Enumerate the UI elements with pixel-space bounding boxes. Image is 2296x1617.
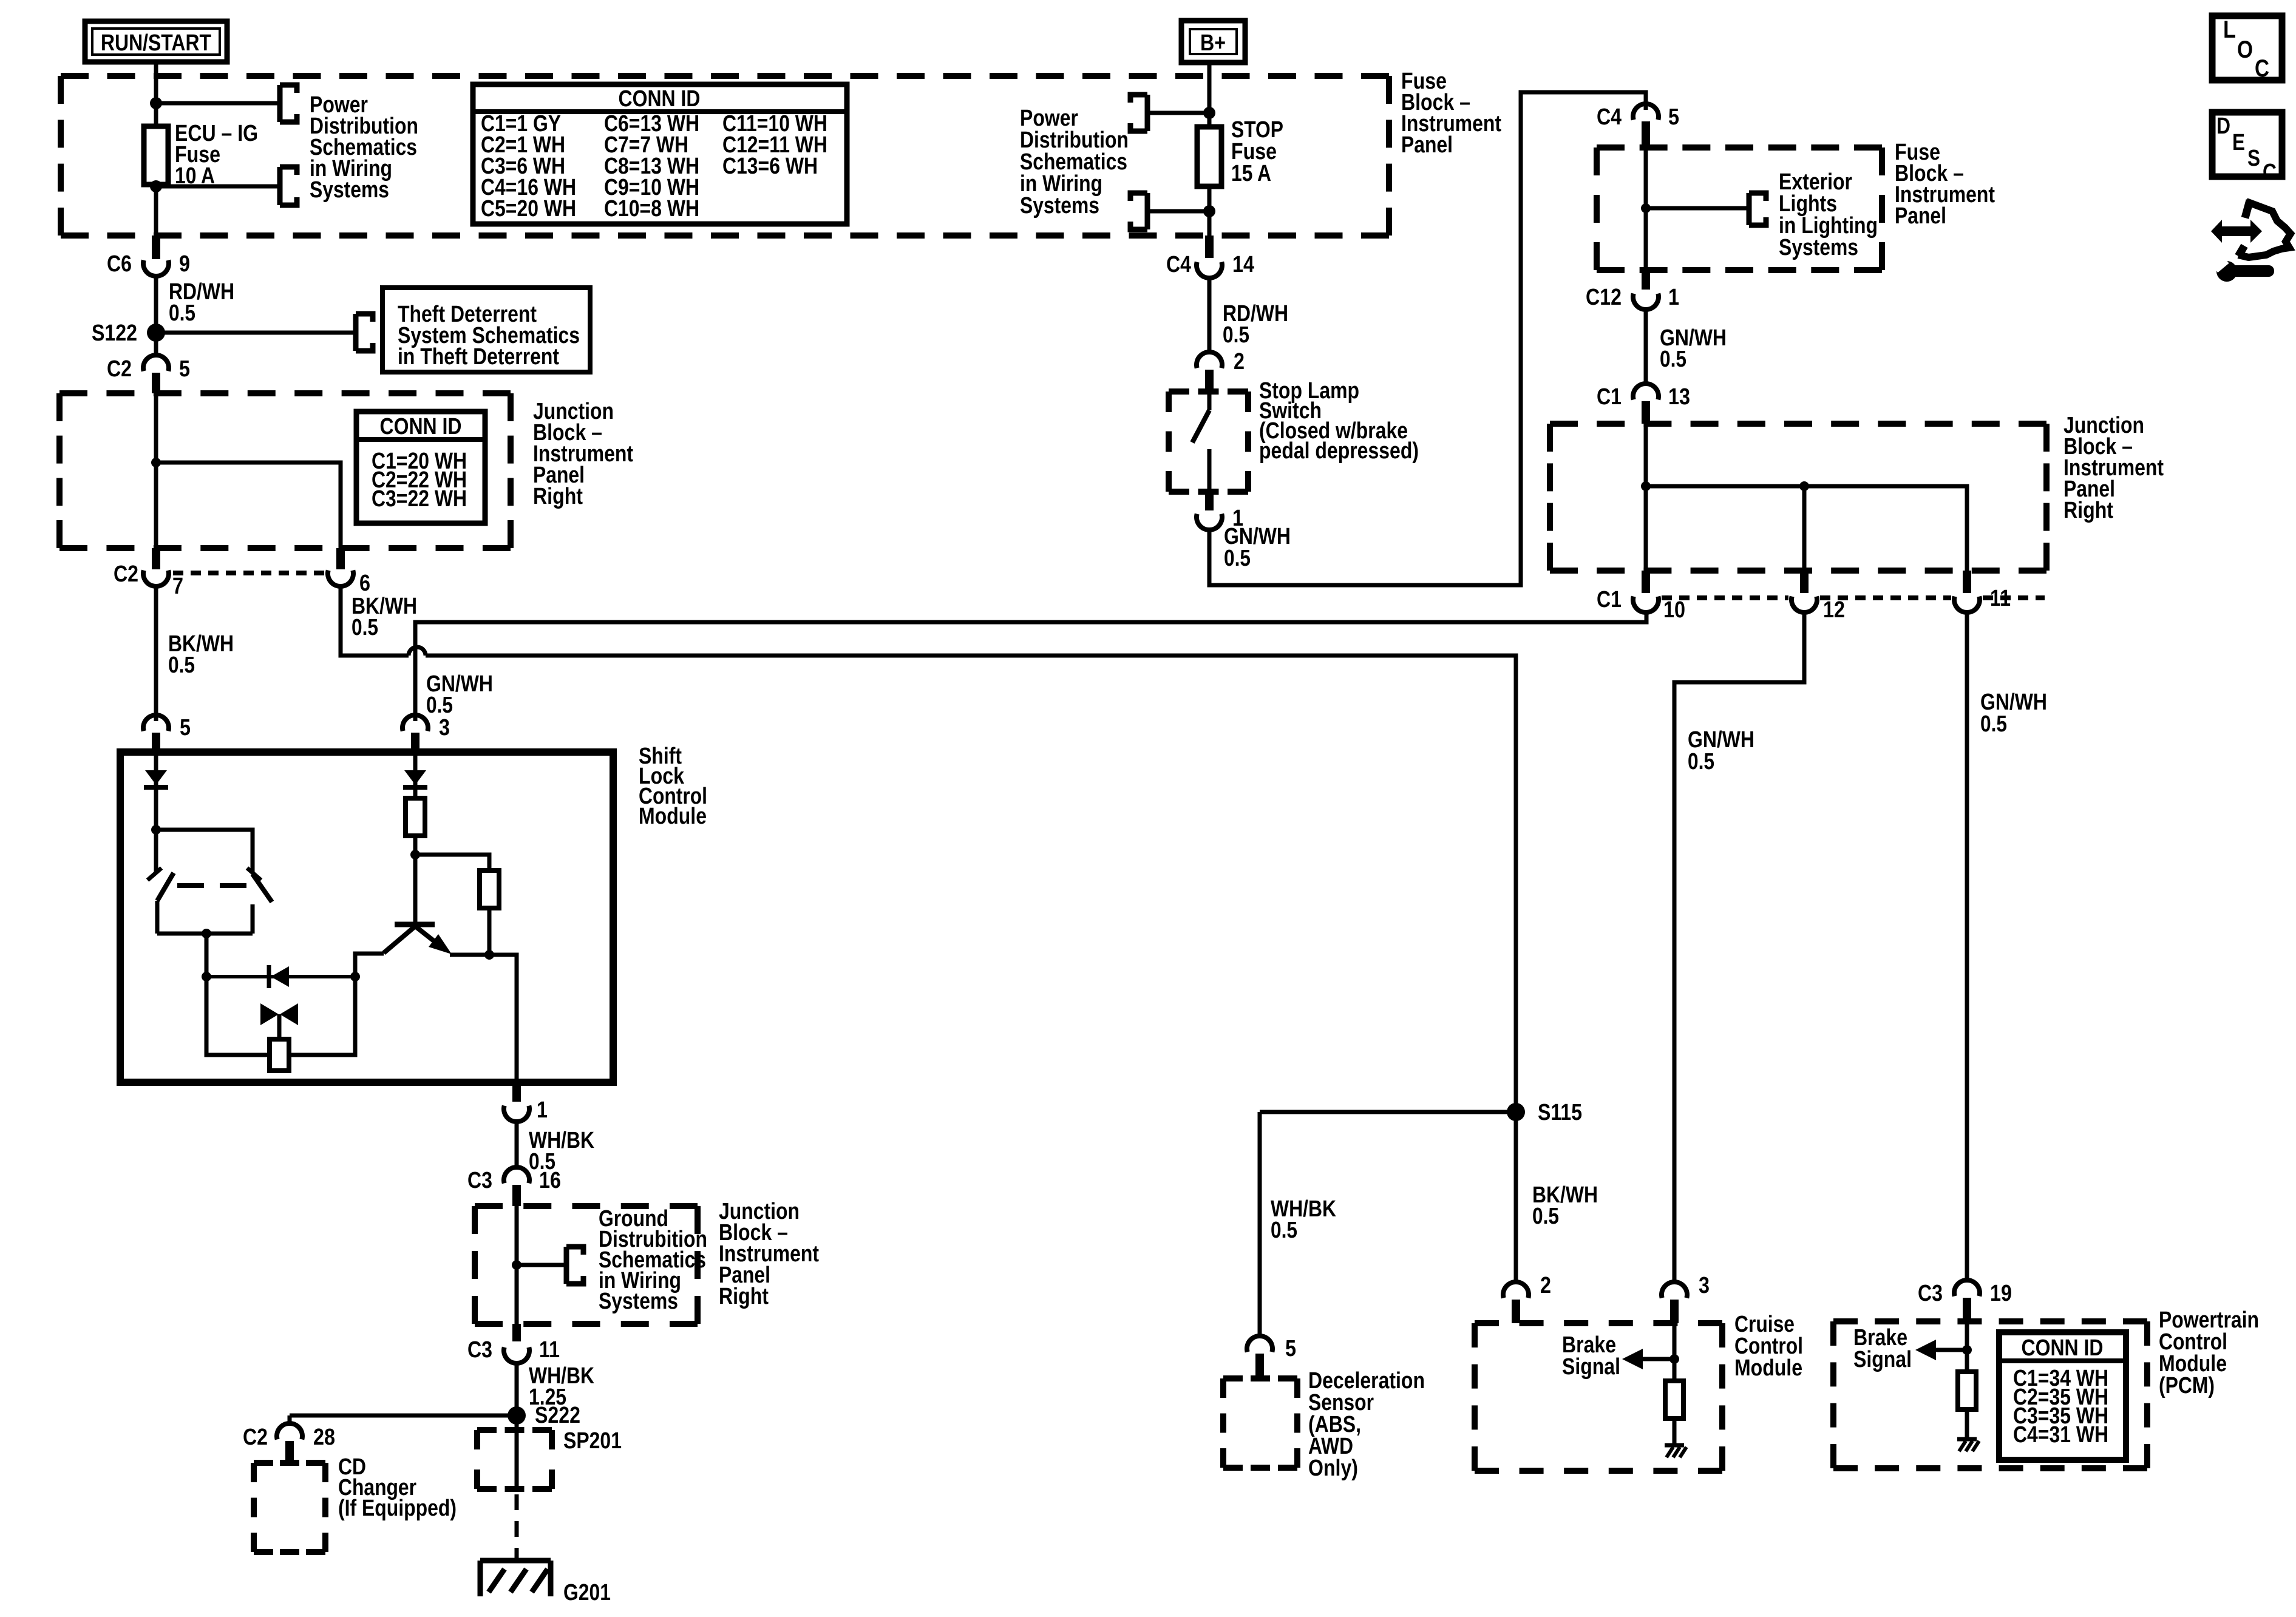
- wire BK/WH run to S115: [341, 586, 1516, 1103]
- svg-text:S: S: [2247, 146, 2260, 171]
- svg-text:B+: B+: [1200, 30, 1226, 56]
- power tag B+: [1181, 21, 1245, 63]
- off-page bracket to Ground Distribution: [566, 1244, 583, 1287]
- svg-text:C2: C2: [107, 356, 132, 382]
- wire node to bracket 2 (left): [1147, 209, 1209, 214]
- svg-text:C6: C6: [107, 251, 132, 277]
- label Fuse Block - Instrument Panel (top right of dashed box): [1401, 69, 1501, 158]
- label Shift Lock Control Module: [639, 744, 707, 829]
- label Ground Distrubition Schematics in Wiring Systems: [599, 1206, 707, 1314]
- wire RD/WH 0.5: [156, 276, 234, 333]
- label BK/WH 0.5 (pin6): [352, 594, 417, 640]
- label Junction Block - Instrument Panel Right (bottom): [719, 1199, 819, 1309]
- wire GN/WH 0.5 (stop out): [1209, 92, 1646, 585]
- junction block - instrument panel right dashed box (right): [1550, 424, 2046, 571]
- svg-text:Systems: Systems: [1779, 235, 1858, 260]
- node C1-13 to 10: [1641, 481, 1651, 491]
- resistor (cruise): [1665, 1381, 1683, 1419]
- connector C6 pin 9: [107, 236, 190, 277]
- svg-text:2: 2: [1234, 349, 1245, 375]
- diode D2 (right): [403, 756, 427, 798]
- wire GN/WH 0.5 (C12 to C1): [1646, 310, 1727, 384]
- off-page bracket to Power Distribution (bottom middle): [1130, 191, 1147, 232]
- connector shift lock pin 3: [402, 715, 450, 756]
- node emitter: [484, 950, 494, 960]
- stop lamp switch dashed box: [1169, 392, 1248, 492]
- wire emitter to node: [450, 953, 489, 957]
- svg-text:0.5: 0.5: [169, 300, 195, 326]
- power tag RUN/START: [85, 21, 227, 62]
- connector C2 pin 28: [243, 1415, 335, 1463]
- off-page bracket to Power Distribution (top left): [280, 83, 297, 125]
- solenoid loop right: [289, 977, 355, 1055]
- wire PCM pin19 down: [1965, 1321, 1969, 1372]
- connector pin 1 (stop lamp): [1197, 492, 1243, 531]
- wire RD/WH 0.5 (stop): [1209, 278, 1288, 352]
- svg-text:E: E: [2232, 130, 2245, 155]
- svg-text:Signal: Signal: [1562, 1354, 1620, 1380]
- svg-text:SP201: SP201: [563, 1428, 622, 1454]
- svg-text:0.5: 0.5: [1224, 546, 1251, 571]
- resistor (PCM): [1958, 1372, 1976, 1409]
- wire GN/WH shift lock pin 3 to C1-10: [415, 612, 1646, 721]
- fuse ECU-IG 10A: [144, 103, 168, 211]
- wire inside junction block: [154, 393, 158, 548]
- PCM dashed box: [1833, 1321, 2147, 1468]
- CONN ID table (PCM): [1999, 1332, 2126, 1460]
- connector-body dashed line C2: [173, 571, 325, 575]
- svg-text:Right: Right: [719, 1284, 769, 1309]
- svg-text:C: C: [2255, 55, 2269, 82]
- svg-text:in Theft Deterrent: in Theft Deterrent: [398, 344, 559, 370]
- wire S122 to theft bracket: [156, 331, 356, 335]
- svg-text:(PCM): (PCM): [2159, 1373, 2215, 1398]
- wire WH/BK 0.5 (decel): [1260, 1112, 1336, 1337]
- icon LOC box: [2212, 16, 2282, 82]
- connector C4 pin 5: [1597, 104, 1679, 147]
- wire S115 left to deceleration: [1260, 1110, 1516, 1114]
- shift lock control module box: [120, 752, 613, 1082]
- svg-text:0.5: 0.5: [1688, 749, 1714, 775]
- internal bus: [1646, 486, 1967, 571]
- off-page bracket to Exterior Lights: [1749, 191, 1766, 228]
- wire node to R2: [415, 855, 489, 870]
- svg-text:2: 2: [1540, 1273, 1551, 1298]
- node bus 12: [1799, 481, 1809, 491]
- label GN/WH 0.5 (pin3): [426, 671, 493, 718]
- node inside junction block: [151, 458, 161, 467]
- switch blade left: [157, 873, 174, 901]
- node base: [410, 850, 420, 859]
- svg-text:0.5: 0.5: [168, 653, 195, 678]
- svg-text:Right: Right: [533, 484, 583, 509]
- svg-text:S115: S115: [1538, 1100, 1582, 1125]
- stop lamp switch blade: [1192, 392, 1209, 492]
- deceleration sensor dashed box: [1223, 1378, 1297, 1468]
- switch blade right: [253, 874, 272, 902]
- connector shift lock pin 1: [504, 1082, 548, 1123]
- label Stop Lamp Switch: [1259, 378, 1419, 464]
- switch linkage dashes: [177, 883, 261, 888]
- callout box Theft Deterrent: [382, 288, 590, 372]
- switch right contact tick: [247, 868, 261, 880]
- connector pin 3 (cruise): [1662, 1273, 1710, 1323]
- svg-text:C1: C1: [1597, 384, 1622, 410]
- connector C1 pin 13: [1597, 384, 1690, 424]
- label Deceleration Sensor (ABS, AWD Only): [1308, 1368, 1425, 1481]
- ground (cruise internal): [1665, 1445, 1686, 1457]
- svg-text:D: D: [2216, 114, 2230, 139]
- wire bus to C1-12: [1802, 486, 1807, 571]
- svg-text:C4: C4: [1166, 252, 1191, 277]
- wire STOP fuse to box edge: [1207, 211, 1212, 236]
- connector C2 pin 6: [328, 548, 370, 596]
- node above STOP fuse: [1203, 107, 1215, 119]
- svg-text:CONN ID: CONN ID: [619, 86, 701, 112]
- svg-text:5: 5: [1668, 104, 1679, 130]
- connector C2 pin 7: [114, 548, 183, 599]
- svg-text:pedal depressed): pedal depressed): [1259, 438, 1419, 464]
- node ground distribution: [512, 1260, 521, 1270]
- svg-text:5: 5: [180, 715, 191, 741]
- label Brake Signal (PCM): [1853, 1325, 1912, 1372]
- wire node to bracket: [156, 101, 280, 106]
- svg-text:12: 12: [1823, 597, 1845, 623]
- svg-text:C13=6 WH: C13=6 WH: [722, 154, 818, 179]
- svg-text:C3: C3: [467, 1168, 492, 1193]
- svg-text:16: 16: [539, 1168, 561, 1193]
- svg-text:Module: Module: [639, 804, 707, 829]
- wire resistor to ground (cruise): [1673, 1419, 1677, 1443]
- svg-text:Signal: Signal: [1853, 1347, 1912, 1372]
- wire node to bracket (left): [1147, 111, 1209, 115]
- svg-text:1: 1: [1668, 285, 1679, 310]
- connector pin 2 (stop lamp): [1197, 349, 1245, 392]
- icon DESC box: [2212, 112, 2282, 185]
- svg-text:Module: Module: [1734, 1355, 1802, 1381]
- solenoid valve (bowtie): [260, 1003, 298, 1039]
- svg-text:O: O: [2237, 36, 2253, 63]
- node brake signal (PCM): [1962, 1345, 1972, 1355]
- svg-text:Systems: Systems: [1020, 193, 1099, 219]
- connector pin 2 (cruise): [1503, 1273, 1551, 1323]
- diode D1 (left): [144, 756, 168, 830]
- svg-text:S222: S222: [535, 1403, 580, 1428]
- solenoid loop left: [206, 977, 270, 1055]
- connector C1 pin 10: [1597, 571, 1685, 623]
- svg-text:13: 13: [1668, 384, 1690, 410]
- switch lower left leg: [155, 901, 160, 934]
- label Exterior Lights in Lighting Systems: [1779, 169, 1878, 260]
- svg-text:C12: C12: [1586, 285, 1622, 310]
- ground (PCM internal): [1957, 1439, 1979, 1451]
- node D3 left: [202, 972, 211, 981]
- wire node to right contact: [156, 830, 253, 873]
- svg-text:1: 1: [537, 1097, 548, 1123]
- svg-text:15 A: 15 A: [1231, 161, 1271, 186]
- svg-text:C10=8 WH: C10=8 WH: [604, 196, 699, 222]
- wire resistor to ground (PCM): [1965, 1409, 1969, 1437]
- dashed wire to ground: [515, 1494, 519, 1561]
- connector pin 5 (deceleration): [1247, 1336, 1296, 1378]
- connector C12 pin 1: [1586, 270, 1679, 310]
- wire S222 to CD changer: [290, 1414, 517, 1418]
- wire RUN/START to fuse block: [154, 62, 158, 103]
- svg-text:CONN ID: CONN ID: [380, 414, 462, 439]
- icon navigate (arrows, outline, wrench): [2211, 200, 2291, 282]
- svg-text:6: 6: [359, 571, 370, 596]
- label Powertrain Control Module (PCM): [2159, 1307, 2259, 1398]
- wire BK/WH 0.5 (pin7 down): [156, 586, 234, 721]
- solenoid coil resistor: [270, 1039, 289, 1071]
- label Junction Block - Instrument Panel Right (right): [2063, 413, 2164, 523]
- svg-text:11: 11: [539, 1337, 560, 1363]
- label Brake Signal (cruise): [1562, 1332, 1620, 1380]
- label STOP Fuse 15 A: [1231, 117, 1283, 186]
- off-page bracket to Power Distribution (top middle): [1130, 92, 1147, 134]
- svg-text:Panel: Panel: [1895, 203, 1946, 229]
- transistor Q1: [384, 855, 452, 954]
- svg-text:14: 14: [1232, 252, 1254, 277]
- wire to module pin 1: [489, 955, 517, 1082]
- node exterior lights: [1641, 203, 1651, 213]
- switch bottom rail: [157, 932, 253, 936]
- connector C1 pin 12: [1792, 571, 1845, 623]
- wire R2 down: [487, 908, 492, 955]
- svg-text:Panel: Panel: [1401, 132, 1453, 158]
- wire node to C2-6 drop: [156, 463, 341, 548]
- wire node to bracket: [517, 1263, 566, 1267]
- svg-text:Right: Right: [2063, 498, 2113, 523]
- resistor R1: [406, 798, 425, 836]
- splice S222: [508, 1403, 580, 1428]
- node brake signal (cruise): [1669, 1354, 1679, 1364]
- svg-text:0.5: 0.5: [426, 693, 453, 718]
- svg-text:C1: C1: [1597, 587, 1622, 612]
- wire S115 to cruise pin 2: [1514, 1112, 1518, 1284]
- svg-text:RUN/START: RUN/START: [101, 30, 211, 56]
- label Junction Block - Instrument Panel Right (left): [533, 399, 633, 509]
- svg-text:0.5: 0.5: [1271, 1218, 1297, 1243]
- connector C2 pin 5: [107, 333, 190, 393]
- svg-text:0.5: 0.5: [1223, 322, 1249, 348]
- svg-text:3: 3: [439, 715, 450, 741]
- svg-text:5: 5: [179, 356, 190, 382]
- wire base lead left: [355, 954, 384, 977]
- label BK/WH 0.5 (S115 down): [1532, 1182, 1598, 1229]
- connector C1 pin 11: [1954, 571, 2031, 612]
- wire C1-12 to cruise pin 3: [1674, 612, 1804, 1284]
- junction block dashed box (ground distribution): [475, 1206, 698, 1324]
- junction block - instrument panel right dashed box (left): [59, 393, 511, 548]
- brake signal arrow (PCM): [1915, 1340, 1967, 1360]
- svg-text:10: 10: [1663, 597, 1685, 623]
- node left: [151, 825, 161, 835]
- off-page bracket to Power Distribution (bottom left): [280, 164, 297, 208]
- fuse block - instrument panel dashed box (top): [61, 76, 1389, 236]
- node on rail: [202, 929, 211, 938]
- CONN ID table (fuse block): [473, 84, 847, 224]
- cruise control module dashed box: [1475, 1323, 1722, 1471]
- svg-text:3: 3: [1699, 1273, 1710, 1298]
- label CD Changer (If Equipped): [338, 1454, 457, 1521]
- wire WH/BK 0.5: [517, 1122, 594, 1175]
- brake signal arrow (cruise): [1622, 1349, 1674, 1369]
- switch left contact: [148, 830, 161, 880]
- connector C3 pin 11: [467, 1324, 560, 1363]
- svg-text:C2: C2: [114, 561, 138, 587]
- ground G201: [480, 1561, 611, 1605]
- svg-text:Systems: Systems: [599, 1289, 678, 1314]
- splice S122: [92, 320, 165, 346]
- svg-text:C3=22 WH: C3=22 WH: [372, 486, 467, 512]
- diode D3 (points left): [206, 965, 355, 988]
- wire inside ground junction block: [515, 1206, 519, 1324]
- off-page bracket to Theft Deterrent: [356, 311, 373, 354]
- wire R1 to node: [413, 836, 418, 855]
- svg-text:5: 5: [1285, 1336, 1296, 1361]
- node D3 right: [350, 972, 360, 981]
- switch lower right leg: [251, 904, 255, 934]
- wire node to bracket: [1646, 206, 1749, 211]
- node below STOP fuse: [1203, 205, 1215, 217]
- svg-text:C4: C4: [1597, 104, 1622, 130]
- svg-text:L: L: [2223, 16, 2236, 43]
- svg-text:C3: C3: [467, 1337, 492, 1363]
- svg-text:S122: S122: [92, 320, 137, 346]
- wire S222 to SP201: [515, 1415, 519, 1489]
- svg-text:C4=31 WH: C4=31 WH: [2013, 1422, 2108, 1448]
- fuse STOP 15A: [1197, 113, 1221, 211]
- svg-text:7: 7: [172, 574, 183, 599]
- svg-text:G201: G201: [563, 1580, 611, 1605]
- connector C3 pin 16: [467, 1167, 561, 1206]
- CD changer dashed box: [254, 1463, 325, 1552]
- svg-text:Only): Only): [1308, 1456, 1358, 1481]
- resistor R2: [480, 870, 499, 908]
- svg-text:C2: C2: [243, 1425, 268, 1450]
- wire C1-11 to PCM C3-19: [1967, 612, 2047, 1281]
- wire node to bracket 2: [156, 185, 280, 189]
- wire cruise pin3 down: [1673, 1323, 1677, 1381]
- node below ECU-IG fuse: [150, 180, 162, 192]
- svg-text:19: 19: [1990, 1281, 2012, 1306]
- svg-text:Systems: Systems: [310, 177, 389, 203]
- wire fuse to box edge: [154, 205, 158, 236]
- wire inside junction block right: [1644, 424, 1648, 571]
- svg-text:0.5: 0.5: [1660, 347, 1686, 372]
- svg-text:9: 9: [179, 251, 190, 277]
- svg-text:28: 28: [313, 1425, 335, 1450]
- label Power Distribution Schematics in Wiring Systems (middle): [1020, 106, 1129, 219]
- label Fuse Block - Instrument Panel (right): [1895, 140, 1995, 229]
- svg-text:0.5: 0.5: [1532, 1204, 1559, 1229]
- svg-text:(If Equipped): (If Equipped): [338, 1496, 457, 1521]
- wire B+ down: [1207, 62, 1212, 113]
- wire inside fuse block right: [1644, 147, 1648, 270]
- wire rail down: [205, 934, 209, 977]
- svg-text:C5=20 WH: C5=20 WH: [481, 196, 576, 222]
- connector shift lock pin 5: [143, 715, 191, 756]
- fuse block IP right dashed box: [1597, 147, 1882, 270]
- svg-text:0.5: 0.5: [1980, 711, 2007, 737]
- svg-text:C: C: [2263, 160, 2277, 185]
- svg-text:C3: C3: [1918, 1281, 1943, 1306]
- connector C3 pin 19: [1918, 1280, 2012, 1321]
- connector-body dashed line C1: [1662, 595, 2045, 600]
- label ECU - IG Fuse 10 A: [175, 121, 258, 189]
- label Cruise Control Module: [1734, 1312, 1803, 1381]
- node above ECU-IG fuse: [150, 97, 162, 109]
- svg-text:0.5: 0.5: [352, 615, 378, 640]
- wire WH/BK 1.25: [517, 1363, 594, 1415]
- splice pack SP201 dashed box: [477, 1428, 622, 1489]
- connector C4 pin 14: [1166, 236, 1254, 278]
- splice S115: [1507, 1100, 1582, 1125]
- CONN ID table (junction block left): [356, 412, 485, 523]
- label Power Distribution Schematics in Wiring Systems (left): [310, 92, 418, 203]
- svg-text:CONN ID: CONN ID: [2022, 1335, 2104, 1361]
